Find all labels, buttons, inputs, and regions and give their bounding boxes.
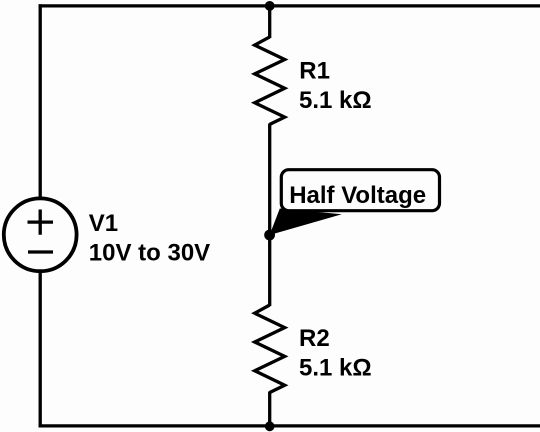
wire: middle branch from R2 to bottom rail xyxy=(268,392,271,426)
callout box Half Voltage xyxy=(281,170,439,211)
node: top junction dot xyxy=(265,1,275,11)
svg-text:5.1 kΩ: 5.1 kΩ xyxy=(299,87,372,114)
wire: left branch upper segment (top rail to V1) xyxy=(39,4,42,198)
wire: middle branch from R1 to half-voltage node xyxy=(268,124,271,237)
callout tail (pointer wedge to node) xyxy=(270,209,342,236)
svg-text:Half Voltage: Half Voltage xyxy=(289,182,426,209)
node: bottom junction dot xyxy=(265,421,275,431)
wire: left branch lower segment (V1 to bottom rail) xyxy=(39,272,42,428)
svg-text:5.1 kΩ: 5.1 kΩ xyxy=(299,355,372,382)
wire: top rail xyxy=(39,4,540,7)
V1 minus symbol xyxy=(28,250,53,253)
resistor R1 (zigzag) xyxy=(255,37,285,125)
V1 plus symbol xyxy=(28,210,54,235)
svg-text:V1: V1 xyxy=(89,210,118,237)
svg-text:10V to 30V: 10V to 30V xyxy=(89,239,210,266)
resistor R2 (zigzag) xyxy=(255,305,285,393)
svg-text:R1: R1 xyxy=(299,58,330,85)
node: half voltage junction dot xyxy=(264,230,275,241)
wire: middle branch from half-voltage node to R2 xyxy=(268,234,271,306)
svg-text:R2: R2 xyxy=(299,325,330,352)
voltage source V1 (circle) xyxy=(4,198,77,271)
wire: bottom rail xyxy=(39,424,540,427)
wire: middle branch from top rail to R1 xyxy=(268,6,271,38)
